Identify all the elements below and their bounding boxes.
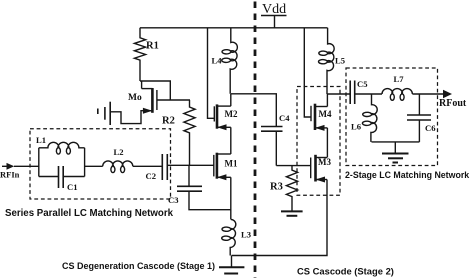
svg-text:Mo: Mo	[128, 93, 142, 103]
caption: CS Degeneration Cascode (Stage 1)	[62, 261, 215, 271]
resistor R3	[286, 166, 297, 212]
svg-text:CS Cascode (Stage 2): CS Cascode (Stage 2)	[297, 266, 394, 277]
svg-text:Vdd: Vdd	[262, 2, 286, 17]
capacitor C2	[162, 154, 167, 180]
inductor L3	[222, 219, 236, 255]
C2 label	[146, 171, 157, 181]
capacitor C6	[407, 94, 431, 142]
tank right bar	[84, 148, 86, 177]
inductor L1	[39, 142, 85, 154]
Vdd label	[262, 2, 286, 17]
wire L3 bottom to M3 source	[232, 180, 328, 256]
capacitor C3	[177, 165, 231, 209]
Vdd supply rail	[140, 27, 328, 29]
svg-text:L1: L1	[36, 135, 46, 145]
L1/C1 tank left bar	[38, 148, 40, 177]
battery bias at Mo source	[98, 102, 110, 125]
ground under L3	[219, 256, 244, 274]
RFout label	[439, 98, 467, 109]
wire Mo drain up	[141, 81, 143, 89]
matching network bottom wire	[372, 141, 420, 143]
Vdd symbol	[261, 16, 287, 28]
inductor L5	[319, 28, 335, 94]
svg-text:C6: C6	[425, 123, 436, 133]
C4 label	[279, 113, 290, 123]
capacitor C5	[350, 81, 355, 105]
R3 label	[270, 182, 283, 193]
svg-text:M1: M1	[225, 159, 238, 169]
svg-text:M4: M4	[319, 109, 332, 119]
svg-text:M2: M2	[225, 109, 238, 119]
L1 label	[36, 135, 46, 145]
resistor R1	[134, 28, 145, 81]
M2 label	[225, 109, 238, 119]
RFIn arrow	[2, 163, 39, 170]
svg-text:CS Degeneration Cascode (Stage: CS Degeneration Cascode (Stage 1)	[62, 261, 215, 271]
svg-text:R2: R2	[162, 116, 175, 127]
svg-text:L4: L4	[212, 56, 223, 66]
M1 label	[225, 159, 238, 169]
L5 label	[335, 56, 345, 66]
transistor M4	[311, 104, 327, 131]
wire M2 gate bias from rail	[208, 28, 215, 119]
stage divider dashed line	[254, 2, 257, 279]
C5 label	[357, 79, 368, 89]
svg-text:L5: L5	[335, 56, 345, 66]
wire M4 gate bias from rail	[304, 28, 311, 117]
L4 label	[212, 56, 223, 66]
M4 label	[319, 109, 332, 119]
svg-text:RFIn: RFIn	[0, 170, 20, 180]
transistor M1	[214, 153, 231, 181]
ground under R3	[281, 211, 303, 215]
svg-text:C2: C2	[146, 171, 157, 181]
L3 label	[241, 230, 251, 240]
transistor M3	[311, 155, 327, 183]
svg-text:M3: M3	[318, 157, 331, 167]
M4/M3 cascode dashed box	[297, 87, 340, 196]
resistor R2	[184, 100, 195, 165]
wire M4 drain to output node	[326, 94, 328, 107]
RFIn label	[0, 170, 20, 180]
capacitor C4	[261, 127, 283, 166]
wire C5 to L7	[355, 93, 382, 95]
wire M4 source to M3 drain	[326, 128, 328, 158]
wire L2 to C2	[133, 165, 163, 167]
svg-text:C5: C5	[357, 79, 368, 89]
svg-text:2-Stage LC Matching Network: 2-Stage LC Matching Network	[345, 170, 469, 180]
inductor L2	[103, 161, 133, 173]
wire C4 to M3 gate	[276, 165, 310, 167]
caption: Series Parallel LC Matching Network	[5, 208, 174, 219]
transistor M2	[214, 104, 231, 130]
svg-text:L7: L7	[394, 74, 405, 84]
ground in output matching network	[382, 142, 409, 163]
caption: 2-Stage LC Matching Network	[345, 170, 469, 180]
R1 label	[146, 41, 159, 52]
svg-text:Series Parallel LC Matching Ne: Series Parallel LC Matching Network	[5, 208, 174, 219]
RFout arrow	[443, 90, 452, 98]
wire M2 drain node to C4	[231, 94, 276, 127]
C3 label	[168, 195, 179, 205]
svg-text:RFout: RFout	[439, 98, 467, 109]
svg-text:L3: L3	[241, 230, 251, 240]
svg-text:C3: C3	[168, 195, 179, 205]
caption: CS Cascode (Stage 2)	[297, 266, 394, 277]
M3 label	[318, 157, 331, 167]
capacitor C1	[39, 166, 85, 188]
wire M2 source to M1 drain	[230, 127, 232, 154]
L6 label	[351, 122, 362, 132]
Mo label	[128, 93, 142, 103]
wire C2 to M1 gate	[167, 164, 214, 166]
svg-text:R3: R3	[270, 182, 283, 193]
transistor Mo	[110, 88, 190, 124]
C6 label	[425, 123, 436, 133]
R2 label	[162, 116, 175, 127]
svg-text:L6: L6	[351, 122, 362, 132]
L7 label	[394, 74, 405, 84]
svg-text:L2: L2	[114, 147, 124, 157]
C1 label	[67, 182, 78, 192]
L2 label	[114, 147, 124, 157]
wire L7 to RFout	[412, 93, 443, 95]
svg-text:C1: C1	[67, 182, 78, 192]
inductor L6	[362, 94, 377, 142]
wire L5 node to C5	[328, 93, 351, 95]
svg-text:C4: C4	[279, 113, 290, 123]
inductor L4	[222, 28, 238, 94]
wire M1 source to L3	[230, 177, 232, 219]
svg-text:R1: R1	[146, 41, 159, 52]
output matching dashed box	[346, 68, 438, 166]
inductor L7	[382, 89, 412, 101]
input matching dashed box	[30, 129, 171, 199]
wire R1 bottom to Mo gate node	[140, 81, 170, 100]
wire tank to L2	[85, 165, 103, 167]
